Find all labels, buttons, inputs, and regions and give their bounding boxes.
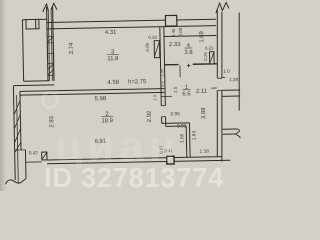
window room 2 [26,161,42,163]
door gap cap lower [162,116,166,118]
svg-text:1.56: 1.56 [179,133,185,143]
entrance door leaf [211,87,216,89]
svg-text:2.5: 2.5 [173,86,178,93]
niche room3 side [154,41,160,58]
svg-text:1.05: 1.05 [159,68,164,77]
stair outer line [238,13,240,111]
svg-text:4.58: 4.58 [107,80,119,86]
landing walls right [222,90,240,96]
svg-text:5.98: 5.98 [95,96,107,102]
svg-text:0.06: 0.06 [145,42,150,51]
wall nook vertical pair [186,123,190,157]
svg-text:1.18: 1.18 [200,149,210,155]
vent box on top wall [165,15,177,26]
svg-text:0.23: 0.23 [205,46,214,51]
svg-text:0.26: 0.26 [203,52,208,61]
wire upper-left zone bottom [24,80,49,82]
vent box top-left [26,19,39,29]
left wall hatch [14,100,21,152]
niche room 4 hatched [209,52,214,64]
wall L-turn horizontal [162,123,190,127]
svg-text:1.64: 1.64 [191,130,197,140]
door leaf room 4 [179,65,181,77]
svg-text:6.6: 6.6 [182,91,191,97]
dimension and room labels [26,26,239,158]
column box on bottom wall [167,156,174,164]
svg-text:0.42: 0.42 [29,150,38,155]
svg-text:2.92: 2.92 [147,111,153,123]
svg-text:ID 327813774: ID 327813774 [44,162,224,191]
wall stub right with break [223,129,238,134]
left wall lower widened [15,149,26,151]
break mark top of shaft wall [43,3,57,12]
svg-text:h=2.75: h=2.75 [128,79,147,85]
svg-text:0.08: 0.08 [178,27,183,36]
wall room2 | lower hall [162,117,166,127]
watermark ring [43,93,58,108]
right wall of flat [216,9,218,157]
wire step outer line [14,84,54,87]
left exterior wall lines [13,86,14,150]
svg-text:2.11: 2.11 [196,89,207,95]
wire top-left boundary [22,18,46,20]
break mark top right wall [216,2,229,13]
svg-text:0.40: 0.40 [171,28,176,37]
svg-text:4.31: 4.31 [105,30,117,36]
thick shaft wall [47,7,48,81]
svg-text:3.8: 3.8 [184,50,193,56]
pier box with hatch [42,152,47,160]
break mark bottom of left wall [5,178,26,184]
svg-text:1.3: 1.3 [152,94,157,100]
svg-text:2.74: 2.74 [69,42,75,54]
wall room3 | hall, upper [160,27,166,106]
room 4 bottom wall with door gap [164,64,217,65]
svg-text:0.95: 0.95 [170,111,180,117]
room 4 top line [163,35,216,36]
wire left upper wall [22,20,23,81]
entrance door caps [217,78,222,90]
svg-text:1.28: 1.28 [229,77,238,82]
svg-text:1.0: 1.0 [223,69,230,74]
main top wall [47,19,216,22]
wall rooms 3|2 divider [20,89,164,92]
shaft wall ticks and hatch [47,36,54,75]
svg-text:1.69: 1.69 [199,31,205,43]
hall stub line [161,95,172,97]
svg-text:0.33: 0.33 [148,35,157,40]
svg-text:2.33: 2.33 [169,42,181,48]
bottom wall [47,157,222,160]
svg-text:0.9: 0.9 [159,81,164,87]
svg-text:11.8: 11.8 [107,56,119,62]
svg-text:3.88: 3.88 [201,107,207,119]
scan paper background [0,0,246,191]
